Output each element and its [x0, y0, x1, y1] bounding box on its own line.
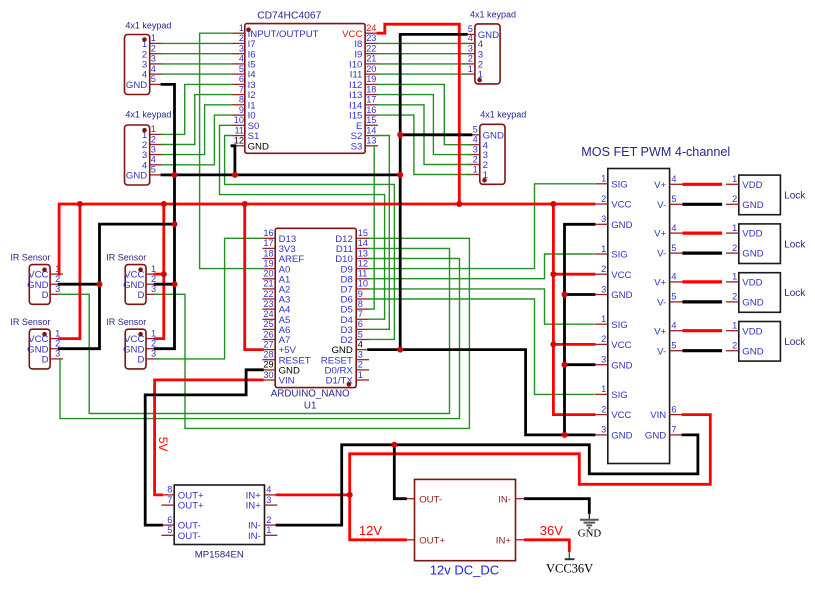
wire black U1.GND to MOSFET GND4 [400, 350, 594, 435]
svg-text:ARDUINO_NANO: ARDUINO_NANO [271, 389, 350, 400]
svg-text:10: 10 [358, 279, 368, 289]
IC U1 ARDUINO_NANO pin 8 D5 [341, 299, 369, 316]
junction 5V bus / IR3 VCC [77, 201, 83, 207]
svg-text:SIG: SIG [611, 250, 628, 261]
svg-text:5: 5 [239, 64, 244, 74]
sensor IR2 (IR Sensor row1 col2) pin 3 D [137, 284, 158, 301]
module Lock 3 pin 1 VDD [726, 272, 763, 289]
svg-text:5: 5 [358, 329, 363, 339]
wire red MOSFET V+3 to Lock3.VDD [684, 280, 721, 283]
module Lock 4 pin 2 GND [726, 341, 764, 358]
svg-text:D: D [42, 290, 49, 301]
svg-text:4: 4 [266, 485, 271, 495]
svg-text:1: 1 [151, 124, 156, 134]
svg-text:GND: GND [126, 80, 147, 91]
junction keypad4 GND [397, 132, 403, 138]
sensor IR1 (IR Sensor row1 col1) pin 1 VCC [28, 264, 63, 281]
IC U1 ARDUINO_NANO pin 15 D12 [335, 228, 369, 245]
wire green U2.I8 to K3.4 [378, 42, 466, 44]
svg-text:5: 5 [671, 243, 676, 253]
svg-text:GND: GND [248, 141, 269, 152]
svg-text:4: 4 [671, 272, 676, 282]
wire red MOSFET V+2 to Lock2.VDD [684, 232, 721, 235]
junction MOSFET GND4 [562, 432, 568, 438]
svg-text:22: 22 [366, 44, 376, 54]
IC U1 ARDUINO_NANO pin 1 D1/TX [326, 370, 369, 387]
module MOSFET PWM board (MOS FET PWM 4-channel) pin 4 V+ [654, 223, 682, 240]
wire black MOSFET V-2 to Lock2.GND [684, 252, 721, 255]
IC U2 CD74HC4067 pin 9 I0 [232, 105, 256, 122]
IC U1 ARDUINO_NANO pin 11 D8 [341, 269, 369, 286]
svg-text:22: 22 [263, 289, 273, 299]
module MOSFET PWM board (MOS FET PWM 4-channel) pin 3 GND [595, 214, 633, 231]
svg-text:27: 27 [263, 339, 273, 349]
svg-text:29: 29 [263, 360, 273, 370]
module Lock 1 pin 2 GND [726, 194, 764, 211]
IC U2 CD74HC4067 pin 20 I11 [350, 64, 378, 81]
module MOSFET PWM board (MOS FET PWM 4-channel) pin 4 V+ [654, 174, 682, 191]
connector keypad K2 (4x1 keypad mid-left) pin 1 1 [142, 124, 163, 141]
connector keypad K3 (4x1 keypad top-right) body [475, 24, 500, 84]
wire red 5V drop to U1.+5V [245, 204, 263, 350]
svg-text:1: 1 [151, 33, 156, 43]
sensor IR1 (IR Sensor row1 col1) pin 3 D [42, 284, 63, 301]
connector keypad K2 (4x1 keypad mid-left) body [125, 125, 150, 185]
module MOSFET PWM board (MOS FET PWM 4-channel) pin 2 VCC [595, 194, 632, 211]
module MOSFET PWM board (MOS FET PWM 4-channel) pin 2 VCC [595, 334, 632, 351]
svg-text:V+: V+ [654, 229, 666, 240]
IC U1 ARDUINO_NANO pin 17 3V3 [262, 238, 295, 255]
svg-text:12: 12 [358, 259, 368, 269]
svg-text:IN-: IN- [498, 494, 511, 505]
svg-text:IR Sensor: IR Sensor [106, 252, 146, 262]
IC U1 ARDUINO_NANO pin 7 D4 [341, 309, 369, 326]
IC U2 CD74HC4067 pin 1 INPUT/OUTPUT [232, 23, 319, 40]
IC U2 CD74HC4067 pin 16 I15 [349, 105, 378, 122]
wire red MOSFET V+1 to Lock1.VDD [684, 183, 721, 186]
junction 5V bus / MOSFET VCC column [550, 201, 556, 207]
svg-text:2: 2 [358, 360, 363, 370]
svg-text:VCC36V: VCC36V [546, 562, 593, 576]
svg-text:23: 23 [366, 33, 376, 43]
svg-text:VCC: VCC [611, 340, 631, 351]
wire green K1.3 to U2.I5 [162, 63, 232, 65]
IC U1 ARDUINO_NANO pin 20 A1 [262, 269, 290, 286]
sensor IR3 (IR Sensor row2 col1) pin 3 D [42, 349, 63, 366]
svg-text:5: 5 [151, 165, 156, 175]
IC U2 CD74HC4067 pin 3 I6 [232, 44, 256, 61]
svg-text:2: 2 [601, 334, 606, 344]
svg-text:MP1584EN: MP1584EN [195, 549, 244, 560]
connector keypad K4 (4x1 keypad mid-right) pin 5 GND [467, 125, 504, 142]
svg-text:CD74HC4067: CD74HC4067 [257, 10, 321, 21]
svg-text:3: 3 [601, 425, 606, 435]
svg-text:3: 3 [239, 44, 244, 54]
IC U1 ARDUINO_NANO [262, 228, 369, 412]
connector keypad K2 (4x1 keypad mid-left) pin 2 2 [142, 134, 163, 151]
IC U1 ARDUINO_NANO pin 19 A0 [262, 259, 290, 276]
module Lock 3 pin 2 GND [726, 292, 764, 309]
wire green U2.I15 to K4.1 [378, 115, 471, 174]
svg-text:1: 1 [601, 314, 606, 324]
wire black K4.GND branch [400, 133, 471, 136]
sensor IR1 (IR Sensor row1 col1) body [29, 265, 50, 305]
connector keypad K2 (4x1 keypad mid-left) pin 5 GND [126, 165, 163, 182]
module MOSFET PWM board (MOS FET PWM 4-channel) pin 5 V- [657, 292, 682, 309]
svg-text:SIG: SIG [611, 390, 628, 401]
module MOSFET PWM board (MOS FET PWM 4-channel) pin 1 SIG [595, 174, 628, 191]
wire green U1.D9 to MOSFET SIG1 [369, 184, 594, 269]
svg-text:13: 13 [358, 248, 368, 258]
module MOSFET PWM board (MOS FET PWM 4-channel) pin 1 SIG [595, 384, 628, 401]
wire green U2.I10 to K3.2 [378, 63, 466, 65]
svg-text:8: 8 [239, 95, 244, 105]
svg-text:VDD: VDD [742, 326, 762, 337]
svg-text:17: 17 [366, 95, 376, 105]
sensor IR2 (IR Sensor row1 col2) body [125, 265, 146, 305]
IC U1 ARDUINO_NANO pin 12 D9 [341, 259, 369, 276]
svg-text:4: 4 [473, 135, 478, 145]
wire green U2.I1 to K2.3 [162, 105, 232, 155]
module Lock 1 [726, 174, 806, 215]
svg-text:6: 6 [671, 404, 676, 414]
module Lock 3 body [739, 273, 781, 313]
connector keypad K3 (4x1 keypad top-right) pin 3 3 [462, 44, 483, 61]
IC U1 ARDUINO_NANO pin 23 A4 [262, 299, 291, 316]
module MOSFET PWM board (MOS FET PWM 4-channel) pin 3 GND [595, 284, 633, 301]
wire red 12V DC_DC OUT+ to MOSFET VIN [350, 415, 711, 540]
module MOSFET PWM board (MOS FET PWM 4-channel) pin 2 VCC [595, 264, 632, 281]
module MP1584EN buck converter pin 3 IN+ [246, 495, 278, 512]
module 12v DC_DC converter [402, 479, 529, 577]
connector keypad K4 (4x1 keypad mid-right) pin 3 3 [467, 144, 488, 161]
svg-text:17: 17 [263, 238, 273, 248]
wire black K2.GND branch [162, 173, 175, 176]
wire green U2.I12 to K4.4 [378, 84, 471, 144]
svg-text:V-: V- [657, 346, 666, 357]
svg-text:2: 2 [239, 33, 244, 43]
svg-text:1: 1 [732, 174, 737, 184]
wire black DC_DC IN- to earth ground [526, 499, 590, 513]
sensor IR3 (IR Sensor row2 col1) body [29, 329, 50, 369]
svg-text:D: D [137, 355, 144, 366]
module MOSFET PWM board (MOS FET PWM 4-channel) pin 2 VCC [595, 404, 632, 421]
svg-text:2: 2 [151, 134, 156, 144]
svg-text:1: 1 [732, 321, 737, 331]
junction GND bus / keypad2 GND [172, 172, 178, 178]
svg-text:2: 2 [601, 194, 606, 204]
svg-text:20: 20 [366, 64, 376, 74]
svg-text:1: 1 [473, 164, 478, 174]
svg-text:3: 3 [468, 44, 473, 54]
module MOSFET PWM board (MOS FET PWM 4-channel) [581, 145, 730, 463]
svg-text:Lock: Lock [784, 288, 806, 299]
svg-text:9: 9 [358, 289, 363, 299]
IC U2 CD74HC4067 pin 2 I7 [232, 33, 256, 50]
svg-text:GND: GND [645, 431, 666, 442]
wire black MOSFET V-3 to Lock3.GND [684, 300, 721, 303]
junction GND bus / U2 GND [232, 172, 238, 178]
svg-text:2: 2 [601, 264, 606, 274]
IC U1 ARDUINO_NANO body [275, 228, 356, 387]
svg-text:VDD: VDD [742, 180, 762, 191]
IC U2 CD74HC4067 pin 5 I4 [232, 64, 256, 81]
svg-text:1: 1 [151, 328, 156, 338]
wire black branch MOSFET GND2 [565, 293, 595, 296]
svg-text:15: 15 [358, 228, 368, 238]
svg-text:IN+: IN+ [496, 535, 512, 546]
svg-text:36V: 36V [540, 523, 563, 538]
IC U1 ARDUINO_NANO pin 18 AREF [262, 248, 304, 265]
connector keypad K4 (4x1 keypad mid-right) pin-1 marker [482, 178, 487, 183]
wire red U2.VCC pin24 to 5V bus [378, 24, 459, 204]
sensor IR3 (IR Sensor row2 col1) pin 2 GND [27, 339, 63, 356]
svg-text:4: 4 [358, 339, 363, 349]
svg-text:4: 4 [468, 33, 473, 43]
IC U2 CD74HC4067 pin 24 VCC [342, 23, 378, 40]
module Lock 4 pin 1 VDD [726, 321, 763, 338]
svg-text:4: 4 [671, 321, 676, 331]
svg-text:4x1 keypad: 4x1 keypad [480, 109, 526, 119]
svg-text:5V: 5V [156, 437, 170, 452]
connector keypad K3 (4x1 keypad top-right) pin 1 1 [462, 64, 483, 81]
svg-text:1: 1 [601, 244, 606, 254]
svg-text:2: 2 [732, 341, 737, 351]
connector keypad K2 (4x1 keypad mid-left) pin 4 4 [142, 155, 163, 172]
wire black MOSFET GND column up to GND1 [565, 224, 595, 435]
module Lock 2 body [739, 224, 781, 264]
svg-text:D: D [137, 290, 144, 301]
IC U2 CD74HC4067 pin 12 GND [232, 136, 269, 153]
svg-text:4: 4 [671, 223, 676, 233]
wire black IR1.GND branch [59, 283, 99, 286]
svg-text:20: 20 [263, 269, 273, 279]
IC U2 CD74HC4067 pin-1 marker [246, 27, 251, 32]
svg-text:15: 15 [366, 115, 376, 125]
wire green U2.S2 to U1.D3 [369, 136, 390, 330]
svg-text:7: 7 [358, 309, 363, 319]
junction GND bus / keypad3-4 column [397, 172, 403, 178]
svg-text:5: 5 [151, 74, 156, 84]
wire green U1.D8 to MOSFET SIG2 [369, 254, 594, 279]
IC U1 ARDUINO_NANO pin 30 VIN [262, 370, 294, 387]
IC U1 ARDUINO_NANO pin 9 D6 [341, 289, 369, 306]
connector keypad K1 (4x1 keypad top-left) pin 2 2 [142, 44, 163, 61]
svg-text:7: 7 [239, 84, 244, 94]
sensor IR4 (IR Sensor row2 col2) pin 1 VCC [124, 328, 159, 345]
IC U2 CD74HC4067 pin 11 S1 [232, 125, 259, 142]
wire black U1.GND pin29 to MP1584 OUT- [145, 370, 262, 525]
wire green U2.I14 to K4.2 [378, 105, 471, 165]
svg-text:4: 4 [151, 155, 156, 165]
svg-text:V+: V+ [654, 180, 666, 191]
svg-text:12V: 12V [359, 523, 382, 538]
junction 5V bus / U2 VCC [456, 201, 462, 207]
svg-text:IR Sensor: IR Sensor [10, 252, 50, 262]
module Lock 1 body [739, 175, 781, 215]
module MP1584EN buck converter pin 4 IN+ [246, 485, 278, 502]
module MP1584EN buck converter pin 1 IN- [248, 525, 277, 542]
svg-text:Lock: Lock [784, 239, 806, 250]
sensor IR2 (IR Sensor row1 col2) pin-1 marker [138, 267, 143, 272]
svg-text:1: 1 [151, 264, 156, 274]
junction IR2 VCC branch [161, 271, 167, 277]
svg-text:2: 2 [732, 292, 737, 302]
IC U1 ARDUINO_NANO pin 2 D0/RX [325, 360, 369, 377]
IC U1 ARDUINO_NANO pin 26 A7 [262, 329, 290, 346]
svg-text:V+: V+ [654, 326, 666, 337]
junction MOSFET GND2 [562, 292, 568, 298]
module MOSFET PWM board (MOS FET PWM 4-channel) pin 3 GND [595, 355, 633, 372]
wire green U2.I3 to K2.1 [162, 84, 232, 134]
connector keypad K4 (4x1 keypad mid-right) pin 1 1 [467, 164, 488, 181]
connector keypad K4 (4x1 keypad mid-right) [467, 109, 526, 184]
IC U2 CD74HC4067 pin 18 I13 [349, 84, 378, 101]
module MOSFET PWM board (MOS FET PWM 4-channel) pin 5 V- [657, 341, 682, 358]
svg-text:1: 1 [732, 223, 737, 233]
wire red DC_DC IN+ to VCC36V [526, 540, 570, 551]
wire green U1.D7 to MOSFET SIG3 [369, 289, 594, 324]
junction MOSFET GND3 [562, 362, 568, 368]
module MP1584EN buck converter pin 7 OUT+ [161, 495, 204, 512]
junction 5V bus / U1 +5V [242, 201, 248, 207]
wire green K1.2 to U2.I6 [162, 53, 232, 55]
svg-text:V-: V- [657, 249, 666, 260]
svg-text:D: D [42, 355, 49, 366]
svg-text:GND: GND [611, 290, 632, 301]
svg-text:2: 2 [468, 54, 473, 64]
ground symbol (earth) GND [580, 513, 599, 529]
module MOSFET PWM board (MOS FET PWM 4-channel) pin 1 SIG [595, 244, 628, 261]
svg-text:5: 5 [671, 341, 676, 351]
svg-text:3: 3 [601, 284, 606, 294]
svg-text:GND: GND [611, 360, 632, 371]
svg-text:1: 1 [55, 328, 60, 338]
svg-text:3: 3 [601, 355, 606, 365]
module MOSFET PWM board (MOS FET PWM 4-channel) pin 5 V- [657, 243, 682, 260]
svg-text:6: 6 [167, 515, 172, 525]
connector keypad K4 (4x1 keypad mid-right) pin 4 4 [467, 135, 489, 152]
svg-text:IN-: IN- [248, 531, 261, 542]
connector keypad K2 (4x1 keypad mid-left) [125, 109, 172, 185]
svg-text:1: 1 [732, 272, 737, 282]
svg-text:23: 23 [263, 299, 273, 309]
sensor IR4 (IR Sensor row2 col2) pin 3 D [137, 349, 158, 366]
power symbol VCC36V [565, 550, 575, 559]
IC U1 ARDUINO_NANO pin 14 D11 [336, 238, 369, 255]
svg-text:V+: V+ [654, 278, 666, 289]
svg-text:GND: GND [742, 249, 763, 260]
IC U2 CD74HC4067 pin 22 I9 [354, 44, 378, 61]
svg-text:VCC: VCC [611, 200, 631, 211]
connector keypad K1 (4x1 keypad top-left) pin 3 3 [142, 54, 163, 71]
IC U1 ARDUINO_NANO pin 24 A5 [262, 309, 290, 326]
sensor IR4 (IR Sensor row2 col2) pin-1 marker [138, 332, 143, 337]
IC U1 ARDUINO_NANO pin-1 marker [347, 382, 352, 387]
connector keypad K1 (4x1 keypad top-left) [125, 20, 172, 94]
wire green K1.4 to U2.I4 [162, 73, 232, 75]
svg-text:6: 6 [358, 319, 363, 329]
wire black IR col1 GND branch [59, 224, 174, 349]
IC U2 CD74HC4067 pin 4 I5 [232, 54, 256, 71]
svg-text:4: 4 [671, 174, 676, 184]
svg-text:VIN: VIN [650, 410, 666, 421]
svg-text:3: 3 [266, 495, 271, 505]
wire green IR1.D to U1.D11 [59, 248, 449, 413]
svg-text:GND: GND [742, 298, 763, 309]
IC U2 CD74HC4067 pin 21 I10 [349, 54, 378, 71]
IC U1 ARDUINO_NANO pin 3 RESET [321, 350, 369, 367]
svg-text:OUT-: OUT- [178, 531, 201, 542]
wire black IR2.GND branch [155, 283, 174, 286]
module MP1584EN buck converter [161, 485, 277, 561]
svg-text:VDD: VDD [742, 278, 762, 289]
svg-text:14: 14 [358, 238, 368, 248]
wire green U1.D6 to MOSFET SIG4 [369, 299, 594, 394]
svg-text:Lock: Lock [784, 191, 806, 202]
module MP1584EN buck converter pin 5 OUT- [161, 525, 200, 542]
svg-text:11: 11 [234, 125, 244, 135]
wire black U1.GND pin4 stub link [369, 348, 401, 351]
wire red IR2.VCC branch [155, 273, 164, 276]
IC U1 ARDUINO_NANO pin 5 D2 [341, 329, 369, 346]
svg-text:16: 16 [263, 228, 273, 238]
module MP1584EN buck converter pin 6 OUT- [161, 515, 200, 532]
svg-text:4x1 keypad: 4x1 keypad [125, 109, 171, 119]
module MOSFET PWM board (MOS FET PWM 4-channel) body [608, 169, 670, 464]
module MOSFET PWM board (MOS FET PWM 4-channel) pin 4 V+ [654, 321, 682, 338]
svg-text:GND: GND [742, 346, 763, 357]
wire green U2.S1 to U1.D2 [225, 136, 395, 340]
junction IR col1 / IR1 GND [97, 281, 103, 287]
svg-text:10: 10 [234, 115, 244, 125]
svg-text:GND: GND [611, 431, 632, 442]
connector keypad K2 (4x1 keypad mid-left) pin-1 marker [142, 128, 147, 133]
IC U2 CD74HC4067 pin 8 I1 [232, 95, 256, 112]
IC U2 CD74HC4067 pin 19 I12 [349, 74, 378, 91]
wire black MP1584 IN- to MOSFET GND7 [277, 435, 698, 525]
module 12v DC_DC converter body [415, 479, 516, 560]
module MOSFET PWM board (MOS FET PWM 4-channel) pin 6 VIN [650, 404, 682, 421]
svg-text:IR Sensor: IR Sensor [106, 317, 146, 327]
wire red 5V bus with drop to IR1.VCC [59, 204, 594, 274]
IC U1 ARDUINO_NANO pin 13 D10 [335, 248, 369, 265]
IC U1 ARDUINO_NANO pin 27 +5V [262, 339, 296, 356]
IC U1 ARDUINO_NANO pin 22 A3 [262, 289, 290, 306]
wire black MOSFET V-1 to Lock1.GND [684, 203, 721, 206]
svg-text:7: 7 [671, 425, 676, 435]
wire green U2.INPUT/OUTPUT to U1.A0 [200, 33, 263, 268]
svg-text:VCC: VCC [611, 410, 631, 421]
svg-text:VCC: VCC [611, 270, 631, 281]
svg-text:18: 18 [263, 248, 273, 258]
module 12v DC_DC converter pin OUT+ [402, 535, 446, 546]
svg-text:24: 24 [366, 23, 376, 33]
sensor IR3 (IR Sensor row2 col1) [10, 317, 63, 369]
svg-text:4x1 keypad: 4x1 keypad [125, 20, 171, 30]
svg-text:GND: GND [611, 220, 632, 231]
svg-text:16: 16 [366, 105, 376, 115]
sensor IR4 (IR Sensor row2 col2) [106, 317, 159, 369]
module Lock 4 [726, 321, 806, 362]
module 12v DC_DC converter pin IN+ [496, 535, 529, 546]
svg-text:11: 11 [358, 269, 368, 279]
svg-text:5: 5 [671, 194, 676, 204]
svg-text:7: 7 [167, 495, 172, 505]
svg-text:5: 5 [167, 525, 172, 535]
module 12v DC_DC converter pin OUT- [402, 494, 442, 505]
module Lock 2 [726, 223, 806, 264]
